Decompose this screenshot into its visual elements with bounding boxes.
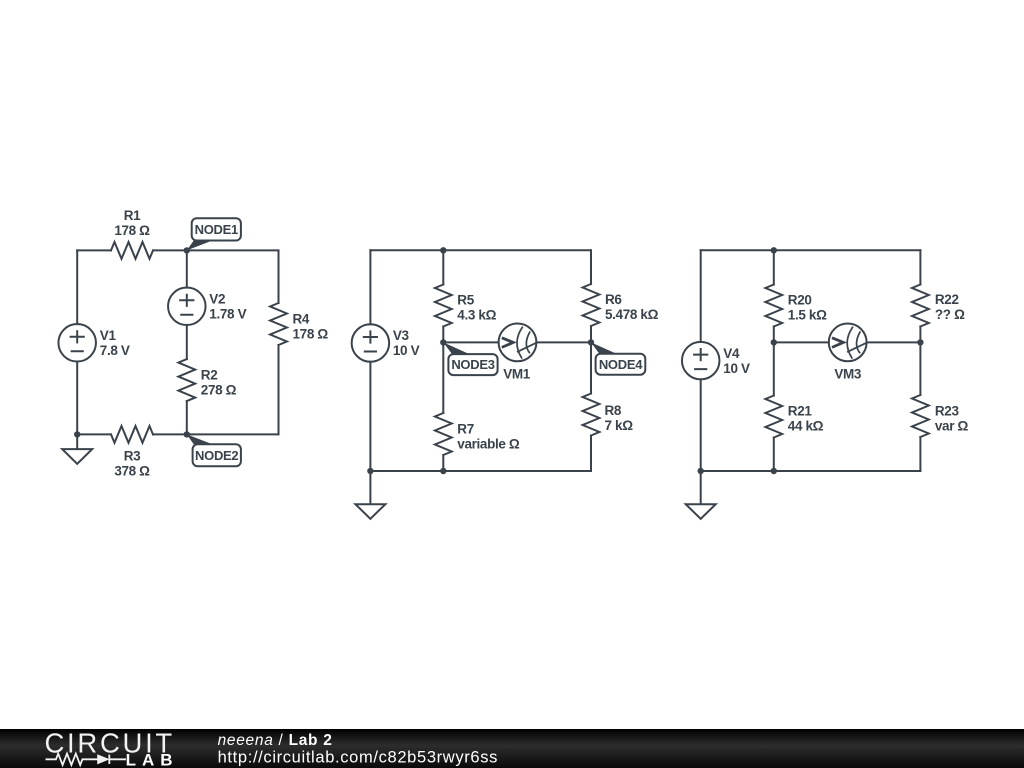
wire bottom right c1	[153, 433, 279, 435]
svg-text:NODE1: NODE1	[195, 222, 238, 237]
wire right top c2	[590, 250, 592, 284]
wire mid node3 to R7	[442, 342, 444, 413]
svg-text:R23: R23	[935, 404, 960, 419]
svg-text:V2: V2	[209, 291, 225, 306]
svg-text:LAB: LAB	[126, 750, 179, 768]
voltage source V1	[58, 324, 96, 362]
svg-text:R5: R5	[457, 293, 474, 308]
svg-text:http://circuitlab.com/c82b53rw: http://circuitlab.com/c82b53rwyr6ss	[218, 748, 498, 766]
wire node3 to VM1	[443, 341, 498, 343]
wire top right c1	[153, 249, 279, 251]
svg-text:378 Ω: 378 Ω	[114, 463, 150, 478]
wire mid top c3	[773, 250, 775, 284]
resistor R5	[435, 285, 452, 327]
wire VM1 to node4	[536, 341, 591, 343]
voltmeter VM3	[829, 324, 867, 362]
resistor R20	[765, 285, 782, 327]
svg-text:R4: R4	[293, 312, 310, 327]
svg-text:278 Ω: 278 Ω	[201, 383, 237, 398]
svg-text:178 Ω: 178 Ω	[293, 327, 329, 342]
wire mid R5 to node3	[442, 327, 444, 343]
voltage source V4	[682, 342, 720, 380]
wire mid lower c1	[186, 401, 188, 434]
wire R21 to bottom	[773, 438, 775, 472]
wire top left c1	[77, 249, 111, 251]
wire right top c3	[919, 250, 921, 284]
resistor R7	[435, 413, 452, 455]
wire node to R21	[773, 342, 775, 395]
resistor R22	[912, 285, 929, 327]
node label NODE3	[443, 342, 497, 375]
logo resistor-diode glyph	[46, 754, 127, 765]
wire right lower c1	[278, 345, 280, 434]
node label NODE2	[187, 434, 241, 466]
svg-text:VM3: VM3	[834, 367, 862, 382]
junction c2 bottom left	[367, 468, 373, 474]
svg-text:VM1: VM1	[503, 367, 531, 382]
svg-text:7 kΩ: 7 kΩ	[605, 418, 634, 433]
wire left lower c1	[76, 362, 78, 435]
wire mid upper c1	[186, 250, 188, 287]
node NODE3 dot	[440, 339, 446, 345]
svg-text:R6: R6	[605, 292, 622, 307]
junction c3 bottom left	[698, 468, 704, 474]
junction c3 top	[771, 247, 777, 253]
svg-text:R21: R21	[788, 404, 813, 419]
wire mid top c2	[442, 250, 444, 284]
svg-text:NODE3: NODE3	[451, 357, 494, 372]
node label NODE4	[591, 342, 645, 374]
wire bottom c3	[701, 470, 921, 472]
junction dots	[74, 247, 924, 474]
svg-text:5.478 kΩ: 5.478 kΩ	[605, 307, 659, 322]
svg-text:NODE4: NODE4	[599, 357, 643, 372]
wire left upper c2	[369, 250, 371, 324]
svg-text:R8: R8	[605, 403, 622, 418]
wire mid R7 to bottom	[442, 455, 444, 471]
ground c2	[355, 471, 385, 519]
svg-text:R1: R1	[124, 208, 141, 223]
svg-text:NODE2: NODE2	[195, 448, 238, 463]
wire R6 to node4	[590, 326, 592, 342]
wire VM3 to right node	[867, 341, 921, 343]
junction c1 bottom left	[74, 431, 80, 437]
svg-text:R7: R7	[457, 422, 474, 437]
resistor R6	[583, 284, 600, 326]
svg-text:R2: R2	[201, 368, 218, 383]
wire node to R23	[919, 342, 921, 395]
svg-text:R20: R20	[788, 293, 812, 308]
wire bottom left c1	[77, 433, 111, 435]
svg-text:V1: V1	[100, 328, 117, 343]
wire top c2	[370, 249, 591, 251]
wire node4 to R8	[590, 342, 592, 393]
resistor R23	[912, 395, 929, 437]
svg-text:R22: R22	[935, 292, 959, 307]
ground c1	[62, 434, 92, 463]
svg-text:10 V: 10 V	[723, 361, 750, 376]
svg-text:4.3 kΩ: 4.3 kΩ	[457, 308, 496, 323]
junction c3 mid right	[917, 339, 923, 345]
wire right upper c1	[278, 250, 280, 303]
svg-text:R3: R3	[124, 449, 141, 464]
wire left upper c1	[76, 250, 78, 324]
wire top c3	[701, 249, 921, 251]
svg-text:44 kΩ: 44 kΩ	[788, 419, 824, 434]
wire R8 to bottom	[590, 436, 592, 472]
resistor R21	[765, 396, 782, 438]
voltage source V2	[168, 288, 206, 326]
junction c3 mid left	[771, 339, 777, 345]
wire R22 to node	[919, 327, 921, 343]
svg-text:10 V: 10 V	[393, 343, 420, 358]
wire bottom c2	[370, 470, 591, 472]
node label NODE1	[187, 218, 241, 250]
junction c2 top	[440, 247, 446, 253]
junction c2 bottom mid	[440, 468, 446, 474]
resistor R8	[583, 394, 600, 436]
wire left lower c2	[369, 362, 371, 471]
node NODE2 dot	[184, 431, 190, 437]
svg-text:V4: V4	[723, 346, 740, 361]
svg-text:variable Ω: variable Ω	[457, 437, 520, 452]
svg-text:1.78 V: 1.78 V	[209, 306, 246, 321]
svg-text:V3: V3	[393, 328, 410, 343]
resistor R1	[111, 242, 153, 259]
resistor R4	[270, 303, 287, 345]
node NODE4 dot	[588, 339, 594, 345]
voltage source V3	[352, 324, 390, 362]
svg-text:178 Ω: 178 Ω	[114, 223, 150, 238]
ground c3	[686, 471, 716, 519]
wire node to VM3	[774, 341, 829, 343]
wire R20 to node	[773, 327, 775, 343]
svg-text:7.8 V: 7.8 V	[100, 343, 130, 358]
wire mid between V2 R2	[186, 325, 188, 359]
svg-text:?? Ω: ?? Ω	[935, 307, 965, 322]
resistor R2	[178, 359, 195, 401]
resistor R3	[111, 426, 153, 443]
svg-text:neeena / Lab 2: neeena / Lab 2	[218, 732, 333, 749]
node NODE1 dot	[184, 247, 190, 253]
svg-text:var Ω: var Ω	[935, 419, 969, 434]
wire R23 to bottom	[919, 437, 921, 471]
junction c3 bottom mid	[771, 468, 777, 474]
wire left lower c3	[700, 379, 702, 471]
svg-text:1.5 kΩ: 1.5 kΩ	[788, 308, 827, 323]
wire left upper c3	[700, 250, 702, 342]
voltmeter VM1	[499, 324, 537, 362]
